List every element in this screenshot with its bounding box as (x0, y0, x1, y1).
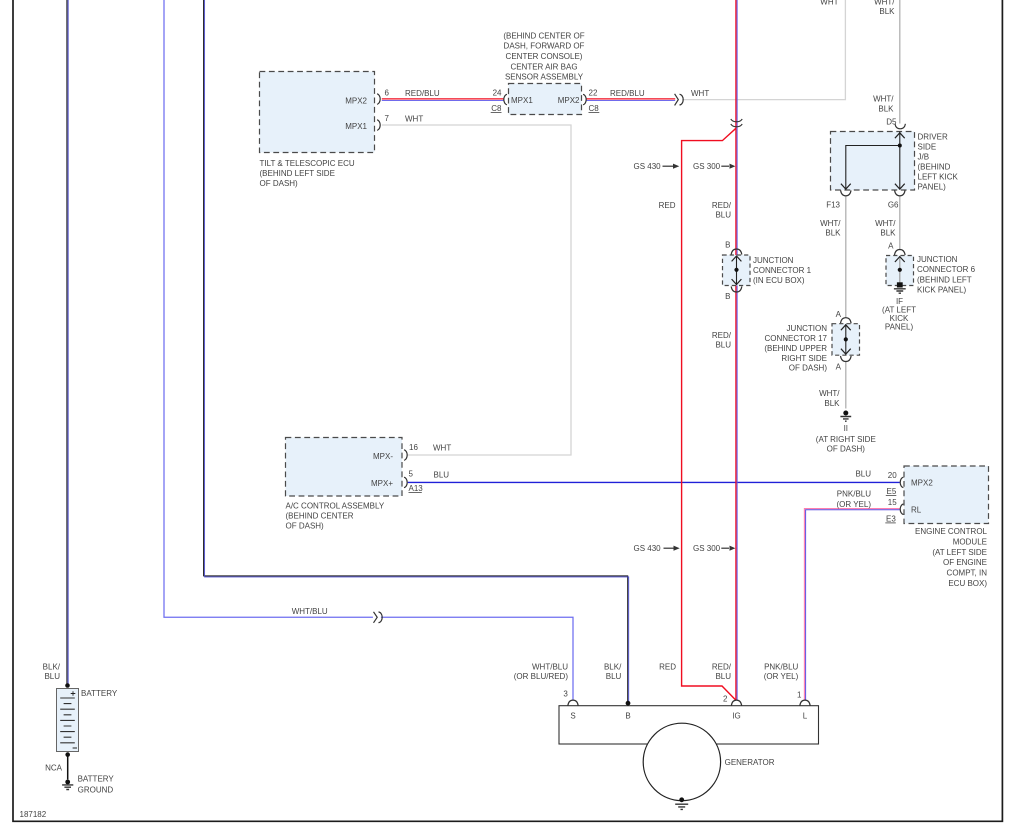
label 15 (888, 498, 897, 507)
center air bag sensor assembly box (509, 84, 582, 115)
svg-text:C8: C8 (491, 104, 502, 113)
label BLK/BLU at B (604, 662, 622, 681)
svg-text:CONNECTOR 17: CONNECTOR 17 (764, 334, 827, 343)
svg-text:OF DASH): OF DASH) (286, 521, 325, 530)
engine control module box (904, 466, 989, 524)
svg-text:CENTER AIR BAG: CENTER AIR BAG (510, 62, 577, 71)
svg-text:(AT LEFT SIDE: (AT LEFT SIDE (932, 548, 987, 557)
svg-text:RED/BLU: RED/BLU (610, 89, 645, 98)
battery (57, 689, 79, 752)
label WHT tilt pin 7 (405, 114, 423, 123)
svg-text:BLK: BLK (878, 104, 894, 113)
svg-text:WHT/BLU: WHT/BLU (292, 607, 328, 616)
wire RED/BLU airbag sensor to inline connector blue strand (586, 99, 675, 101)
svg-text:BLK: BLK (880, 229, 896, 238)
svg-text:RIGHT SIDE: RIGHT SIDE (781, 354, 827, 363)
label tilt ECU pin 6 (385, 89, 390, 98)
svg-text:5: 5 (409, 469, 414, 478)
svg-text:A: A (836, 310, 842, 319)
label 2 (723, 695, 728, 704)
junction connector 1 (723, 249, 751, 292)
label GENERATOR (725, 758, 775, 767)
svg-text:G6: G6 (888, 200, 899, 209)
svg-text:(BEHIND UPPER: (BEHIND UPPER (764, 344, 827, 353)
svg-text:GS 430: GS 430 (634, 544, 662, 553)
label WHT/BLK above D5 (873, 95, 894, 114)
label F13 (826, 200, 840, 209)
svg-text:(BEHIND CENTER: (BEHIND CENTER (286, 511, 354, 520)
svg-text:CONNECTOR 1: CONNECTOR 1 (753, 266, 812, 275)
svg-text:BLU: BLU (715, 672, 731, 681)
label ENGINE CONTROL MODULE (915, 527, 988, 588)
svg-text:ECU BOX): ECU BOX) (948, 579, 987, 588)
wire WHT/BLK top to D5 (899, 0, 901, 124)
driver side J/B box (831, 132, 915, 191)
svg-text:GROUND: GROUND (78, 785, 114, 794)
wire BLK/BLU from top to generator B blue strand (205, 0, 629, 703)
wire WHT/BLK F13 to junction connector 17 (845, 196, 847, 318)
ground II (840, 411, 851, 422)
svg-text:3: 3 (563, 690, 568, 699)
svg-text:SENSOR ASSEMBLY: SENSOR ASSEMBLY (505, 73, 584, 82)
generator circle (643, 723, 720, 800)
label A below junction connector 17 (836, 362, 842, 371)
svg-text:WHT/: WHT/ (874, 0, 895, 7)
svg-text:A13: A13 (409, 484, 424, 493)
label WHT/BLU horizontal (292, 607, 328, 616)
svg-text:24: 24 (493, 89, 502, 98)
svg-text:BLK: BLK (879, 7, 895, 16)
wire WHT/BLK junction connector 17 to ground II (845, 362, 847, 409)
svg-text:BLU: BLU (715, 211, 731, 220)
junction connector 17 (832, 318, 860, 362)
ground battery (62, 780, 73, 790)
wire BLK/BLU battery feed black strand (66, 0, 68, 685)
svg-text:WHT/: WHT/ (820, 219, 841, 228)
svg-text:(BEHIND LEFT SIDE: (BEHIND LEFT SIDE (260, 169, 335, 178)
driver side J/B F13 arc (841, 190, 851, 195)
generator terminal box (559, 706, 819, 744)
svg-text:DRIVER: DRIVER (918, 132, 948, 141)
wire WHT/BLK G6 to junction connector 6 (899, 196, 901, 250)
wire NCA battery to ground (67, 755, 69, 780)
label MPX+ (371, 479, 393, 488)
label A above junction connector 6 (888, 241, 894, 250)
label RL ecm (911, 506, 922, 515)
ECM pin 20 arc (900, 477, 903, 488)
label D5 (886, 117, 897, 126)
svg-text:A: A (888, 241, 894, 250)
label WHT/BLK below G6 (875, 219, 896, 238)
svg-text:BLK/: BLK/ (604, 662, 622, 671)
label A/C pin 16 (409, 443, 418, 452)
svg-text:(OR BLU/RED): (OR BLU/RED) (514, 672, 569, 681)
svg-text:TILT & TELESCOPIC ECU: TILT & TELESCOPIC ECU (260, 159, 355, 168)
svg-text:MPX2: MPX2 (345, 96, 367, 105)
svg-text:C8: C8 (589, 104, 600, 113)
wire WHT from inline connector to top edge (682, 0, 845, 100)
svg-text:MODULE: MODULE (953, 537, 987, 546)
label JUNCTION CONNECTOR 1 (753, 256, 812, 285)
svg-text:E5: E5 (887, 487, 897, 496)
label 20 (888, 471, 897, 480)
svg-text:GS 430: GS 430 (634, 162, 662, 171)
svg-text:20: 20 (888, 471, 897, 480)
label GS 300 upper (693, 162, 721, 171)
svg-text:BLU: BLU (434, 471, 450, 480)
label RED/BLU upper (712, 201, 732, 220)
svg-text:KICK PANEL): KICK PANEL) (917, 286, 967, 295)
svg-text:NCA: NCA (45, 764, 63, 773)
svg-text:PANEL): PANEL) (918, 182, 947, 191)
svg-text:RL: RL (911, 506, 922, 515)
GS 430 arrow lower (664, 546, 680, 551)
label II (844, 424, 848, 433)
svg-text:(BEHIND LEFT: (BEHIND LEFT (917, 275, 972, 284)
wire RED/BLU main vertical blue strand (736, 0, 738, 700)
wire PNK/BLU ECM RL to generator L pink strand (804, 509, 899, 701)
wire WHT/BLU from top to generator S (164, 0, 573, 700)
svg-text:WHT: WHT (820, 0, 838, 7)
junction dot battery negative (65, 752, 70, 757)
svg-text:MPX-: MPX- (373, 452, 393, 461)
svg-text:PNK/BLU: PNK/BLU (837, 489, 871, 498)
label WHT/BLU (OR BLU/RED) (514, 662, 569, 681)
label BLK/BLU battery wire (43, 662, 61, 681)
label E5 underlined (886, 487, 897, 496)
svg-text:187182: 187182 (20, 810, 47, 819)
label IF (896, 297, 903, 306)
wire RED branch GS430 (682, 128, 736, 700)
label MPX- (373, 452, 393, 461)
inline connector WHT/BLU (374, 612, 383, 623)
label C8 left underlined (491, 104, 502, 113)
wire BLU A/C MPX+ to ECM MPX2 (408, 481, 900, 483)
svg-text:B: B (625, 712, 630, 721)
driver side J/B G6 arc (895, 190, 905, 195)
diagram number 187182 (20, 810, 47, 819)
svg-text:D5: D5 (886, 117, 897, 126)
svg-text:16: 16 (409, 443, 418, 452)
label WHT/BLK top cut (874, 0, 895, 16)
svg-text:BLK: BLK (825, 229, 841, 238)
svg-text:BATTERY: BATTERY (78, 774, 115, 783)
label A13 underlined (409, 484, 424, 493)
inline connector RED/BLU to WHT (675, 94, 684, 106)
svg-text:(AT RIGHT SIDE: (AT RIGHT SIDE (816, 435, 876, 444)
driver side J/B internal bus (841, 132, 905, 190)
svg-text:RED: RED (659, 201, 676, 210)
label G6 (888, 200, 899, 209)
svg-text:SIDE: SIDE (918, 142, 937, 151)
svg-text:J/B: J/B (918, 152, 930, 161)
label MPX1 tilt (345, 122, 367, 131)
label (AT LEFT KICK PANEL) (882, 306, 916, 332)
label 3 (563, 690, 568, 699)
generator L pin arc (800, 700, 810, 706)
a/c control assembly box (286, 438, 403, 497)
svg-text:GENERATOR: GENERATOR (725, 758, 775, 767)
label RED upper (659, 201, 676, 210)
label WHT top cut (820, 0, 838, 7)
label BATTERY (81, 689, 118, 698)
svg-text:BLU: BLU (715, 341, 731, 350)
svg-text:RED/: RED/ (712, 201, 732, 210)
tilt ECU pin 7 arc (377, 120, 380, 131)
svg-text:PANEL): PANEL) (885, 323, 914, 332)
svg-text:(OR YEL): (OR YEL) (764, 672, 799, 681)
svg-text:MPX2: MPX2 (911, 479, 933, 488)
label GS 430 lower (634, 544, 662, 553)
generator ground (675, 797, 688, 809)
svg-text:BLK: BLK (824, 399, 840, 408)
label PNK/BLU at ECM (836, 489, 871, 508)
label DRIVER SIDE J/B (918, 132, 959, 191)
svg-text:F13: F13 (826, 200, 840, 209)
GS 430 arrow upper (663, 164, 680, 169)
svg-text:PNK/BLU: PNK/BLU (764, 662, 798, 671)
label B above junction connector 1 (725, 241, 730, 250)
svg-text:GS 300: GS 300 (693, 162, 721, 171)
svg-text:RED/: RED/ (712, 331, 732, 340)
airbag sensor pin 22 arc (583, 94, 586, 105)
svg-text:WHT/: WHT/ (819, 389, 840, 398)
label tilt ECU pin 7 (385, 114, 390, 123)
label MPX2 ecm (911, 479, 933, 488)
junction dot generator B (626, 701, 631, 706)
label WHT after connector (691, 89, 709, 98)
label E3 underlined (885, 515, 896, 524)
label GS 300 lower (693, 544, 721, 553)
svg-text:1: 1 (797, 690, 802, 699)
svg-text:CONNECTOR 6: CONNECTOR 6 (917, 265, 976, 274)
svg-text:WHT/BLU: WHT/BLU (532, 662, 568, 671)
svg-text:COMPT, IN: COMPT, IN (947, 569, 988, 578)
label A/C pin 5 (409, 469, 414, 478)
junction dot battery positive (65, 683, 70, 688)
label (AT RIGHT SIDE OF DASH) (816, 435, 876, 454)
svg-text:(BEHIND CENTER OF: (BEHIND CENTER OF (503, 31, 584, 40)
a/c pin 16 arc (404, 450, 407, 461)
tilt ECU pin 6 arc (377, 94, 380, 105)
label B below junction connector 1 (725, 292, 730, 301)
svg-text:OF DASH): OF DASH) (827, 445, 866, 454)
label A above junction connector 17 (836, 310, 842, 319)
label BATTERY GROUND (78, 774, 115, 794)
wire BLK/BLU from top to generator B black strand (204, 0, 628, 703)
label pin 24 (493, 89, 502, 98)
svg-text:OF DASH): OF DASH) (260, 179, 299, 188)
label terminal S (570, 712, 575, 721)
svg-text:MPX1: MPX1 (345, 122, 367, 131)
label GS 430 upper (634, 162, 662, 171)
svg-text:BLU: BLU (855, 470, 871, 479)
svg-text:L: L (803, 712, 808, 721)
junction connector 6 (886, 250, 914, 294)
svg-text:JUNCTION: JUNCTION (753, 256, 794, 265)
label RED/BLU mid (712, 331, 732, 350)
label MPX2 tilt (345, 96, 367, 105)
svg-text:WHT: WHT (405, 114, 423, 123)
label PNK/BLU (OR YEL) lower (764, 662, 799, 681)
label JUNCTION CONNECTOR 17 (764, 324, 827, 373)
svg-text:IG: IG (732, 712, 740, 721)
svg-text:MPX1: MPX1 (511, 96, 533, 105)
svg-text:WHT: WHT (691, 89, 709, 98)
inline connector on RED/BLU vertical (731, 119, 742, 127)
airbag sensor pin 24 arc (504, 94, 507, 105)
svg-text:LEFT KICK: LEFT KICK (918, 172, 959, 181)
label RED/BLU tilt to airbag (405, 89, 440, 98)
svg-text:GS 300: GS 300 (693, 544, 721, 553)
svg-text:BLK/: BLK/ (43, 662, 61, 671)
label BLU at ECM (855, 470, 871, 479)
label RED/BLU airbag to connector (610, 89, 645, 98)
label WHT/BLK above ground II (819, 389, 840, 408)
label TILT & TELESCOPIC ECU (260, 159, 355, 188)
svg-text:MPX2: MPX2 (558, 96, 580, 105)
svg-text:OF ENGINE: OF ENGINE (943, 558, 987, 567)
svg-text:B: B (725, 241, 730, 250)
svg-text:DASH, FORWARD OF: DASH, FORWARD OF (504, 42, 585, 51)
svg-text:7: 7 (385, 114, 390, 123)
label terminal IG (732, 712, 740, 721)
svg-text:(BEHIND: (BEHIND (918, 162, 951, 171)
label terminal L (803, 712, 808, 721)
svg-text:JUNCTION: JUNCTION (917, 255, 958, 264)
label pin 22 (589, 89, 598, 98)
label WHT a/c (433, 444, 451, 453)
svg-text:BLU: BLU (44, 672, 60, 681)
a/c pin 5 arc (404, 477, 407, 488)
svg-text:A/C CONTROL ASSEMBLY: A/C CONTROL ASSEMBLY (286, 501, 385, 510)
wire RED/BLU main vertical red strand (735, 0, 737, 700)
svg-text:ENGINE CONTROL: ENGINE CONTROL (915, 527, 988, 536)
svg-text:MPX+: MPX+ (371, 479, 393, 488)
svg-text:WHT/: WHT/ (873, 95, 894, 104)
svg-text:(IN ECU BOX): (IN ECU BOX) (753, 276, 805, 285)
label C8 right underlined (589, 104, 600, 113)
svg-text:B: B (725, 292, 730, 301)
svg-text:(OR YEL): (OR YEL) (836, 500, 871, 509)
ECM pin 15 arc (900, 504, 903, 515)
label MPX1 airbag (511, 96, 533, 105)
GS 300 arrow upper (721, 164, 735, 169)
wire PNK/BLU ECM RL to generator L blue strand (806, 510, 900, 700)
label center air bag sensor assembly heading (503, 31, 584, 81)
svg-text:WHT/: WHT/ (875, 219, 896, 228)
label MPX2 airbag (558, 96, 580, 105)
wire RED/BLU TILT MPX2 pin6 to airbag sensor blue strand (382, 99, 504, 101)
label JUNCTION CONNECTOR 6 (917, 255, 976, 294)
svg-text:RED/: RED/ (712, 662, 732, 671)
svg-text:JUNCTION: JUNCTION (787, 324, 828, 333)
label RED lower (659, 662, 676, 671)
svg-text:2: 2 (723, 695, 728, 704)
label terminal B (625, 712, 630, 721)
svg-text:15: 15 (888, 498, 897, 507)
tilt & telescopic ECU box (260, 72, 375, 153)
svg-text:BLU: BLU (606, 672, 622, 681)
label A/C CONTROL ASSEMBLY (286, 501, 385, 530)
GS 300 arrow lower (721, 546, 735, 551)
svg-text:WHT: WHT (433, 444, 451, 453)
driver side J/B D5 arc (895, 124, 905, 129)
svg-text:OF DASH): OF DASH) (789, 364, 828, 373)
generator IG pin arc (731, 700, 741, 706)
label WHT/BLK below F13 (820, 219, 841, 238)
svg-text:II: II (844, 424, 848, 433)
svg-text:S: S (570, 712, 575, 721)
svg-text:22: 22 (589, 89, 598, 98)
wire RED/BLU TILT MPX2 pin6 to airbag sensor red strand (382, 98, 504, 100)
wire RED/BLU airbag sensor to inline connector red strand (586, 98, 675, 100)
label RED/BLU lower (712, 662, 732, 681)
svg-text:RED: RED (659, 662, 676, 671)
svg-text:CENTER CONSOLE): CENTER CONSOLE) (506, 52, 583, 61)
generator S pin arc (568, 700, 578, 706)
svg-text:BATTERY: BATTERY (81, 689, 118, 698)
wire WHT TILT MPX1 pin7 loop to A/C MPX- pin16 (382, 125, 571, 455)
svg-text:A: A (836, 362, 842, 371)
svg-text:RED/BLU: RED/BLU (405, 89, 440, 98)
svg-text:E3: E3 (886, 515, 896, 524)
label NCA (45, 764, 63, 773)
label 1 (797, 690, 802, 699)
label BLU a/c (434, 471, 450, 480)
svg-text:6: 6 (385, 89, 390, 98)
wire BLK/BLU battery feed blue strand (67, 0, 69, 685)
